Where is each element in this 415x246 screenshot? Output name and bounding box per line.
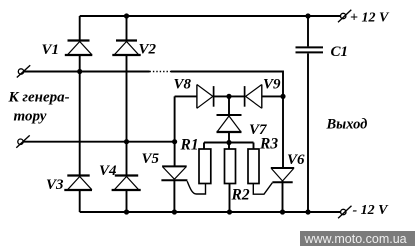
svg-text:V6: V6 xyxy=(287,152,305,168)
node bottom rail / V5 xyxy=(172,209,177,214)
svg-text:К генера-: К генера- xyxy=(8,89,70,105)
svg-text:V8: V8 xyxy=(174,76,192,92)
svg-text:Выход: Выход xyxy=(326,116,368,132)
node V8 V9 junction xyxy=(226,94,231,99)
wire R1 top stub xyxy=(203,143,205,150)
wire V6 cathode to bottom rail xyxy=(282,181,284,212)
node phase2 / V5 branch xyxy=(172,139,177,144)
wire C1 top xyxy=(307,16,309,46)
svg-text:тору: тору xyxy=(14,108,47,124)
diode V1 xyxy=(65,41,93,56)
diode V8 xyxy=(197,85,214,109)
node bottom rail / V4 xyxy=(124,209,129,214)
diode V9 xyxy=(245,85,262,109)
wire C1 bottom to rail xyxy=(307,54,309,213)
diode V7 xyxy=(217,115,242,132)
wire dotted section xyxy=(150,71,172,73)
node top rail / V2 branch xyxy=(124,13,129,18)
terminal -12V xyxy=(338,206,351,219)
node top rail / C1 branch xyxy=(305,13,310,18)
node V1 branch / generator wire xyxy=(77,69,82,74)
watermark bar xyxy=(300,231,415,246)
node bottom rail / V6 xyxy=(280,209,285,214)
wire R3 top stub xyxy=(253,143,255,150)
terminal generator phase 1 xyxy=(17,65,30,77)
wire V8V9 junction down to V7 xyxy=(228,96,230,115)
wire generator phase 2 xyxy=(23,141,174,143)
svg-text:www.moto.com.ua: www.moto.com.ua xyxy=(304,232,407,246)
wire V5 cathode to bottom rail xyxy=(173,180,175,212)
resistor R3 xyxy=(248,149,259,184)
svg-text:V4: V4 xyxy=(99,163,117,179)
node V9 wire / V6 branch xyxy=(280,94,285,99)
wire top rail +12V xyxy=(80,15,341,17)
terminal +12V xyxy=(338,10,351,22)
wire V2 branch top xyxy=(126,16,128,41)
thyristor V5 xyxy=(161,166,187,180)
wire V1 branch top xyxy=(79,16,81,41)
node bottom rail / R2 xyxy=(227,209,232,214)
wire V8 to V9 xyxy=(214,95,245,97)
svg-text:V1: V1 xyxy=(42,42,60,58)
svg-text:C1: C1 xyxy=(331,44,349,60)
wire V3 to bottom rail xyxy=(79,190,81,212)
wire resistor top rail xyxy=(204,142,254,144)
wire V6 branch anode xyxy=(282,96,284,168)
wire V8 V9 left corner down to V5 xyxy=(174,96,176,166)
capacitor C1 xyxy=(296,47,324,52)
diode V4 xyxy=(112,176,141,191)
wire V7 to resistor rail xyxy=(228,132,230,149)
diode V2 xyxy=(112,41,140,56)
node V7 / resistor rail xyxy=(226,140,231,145)
diode V3 xyxy=(64,176,92,191)
wire V9 to corner xyxy=(262,95,283,97)
wire V2 to V4 xyxy=(126,55,128,176)
svg-text:V5: V5 xyxy=(142,151,160,167)
wire V8 anode segment xyxy=(175,95,197,97)
wire R2 bottom stub xyxy=(229,184,231,213)
thyristor V6 xyxy=(271,168,294,182)
resistor R2 xyxy=(225,149,236,184)
svg-text:V9: V9 xyxy=(263,76,281,92)
wire V6 gate to R3 bottom xyxy=(253,183,272,195)
wire bottom rail -12V xyxy=(80,211,341,213)
wire V1 to V3 xyxy=(79,55,81,176)
node V2 branch / phase wire 2 xyxy=(124,139,129,144)
svg-text:V2: V2 xyxy=(139,42,157,58)
svg-text:R3: R3 xyxy=(259,135,278,152)
terminal generator phase 2 xyxy=(16,135,29,147)
wire phase 1 to V6 branch corner xyxy=(171,72,283,97)
svg-text:V3: V3 xyxy=(46,177,64,193)
wire V5 gate to R1 bottom xyxy=(187,181,205,194)
resistor R1 xyxy=(199,149,211,184)
svg-text:- 12 V: - 12 V xyxy=(353,203,390,218)
wire V4 to bottom rail xyxy=(126,190,128,212)
svg-text:R2: R2 xyxy=(231,186,250,203)
node bottom rail / C1 xyxy=(305,209,310,214)
svg-text:R1: R1 xyxy=(180,136,199,153)
wire generator phase 1 xyxy=(24,71,150,73)
svg-text:+ 12 V: + 12 V xyxy=(350,11,390,26)
